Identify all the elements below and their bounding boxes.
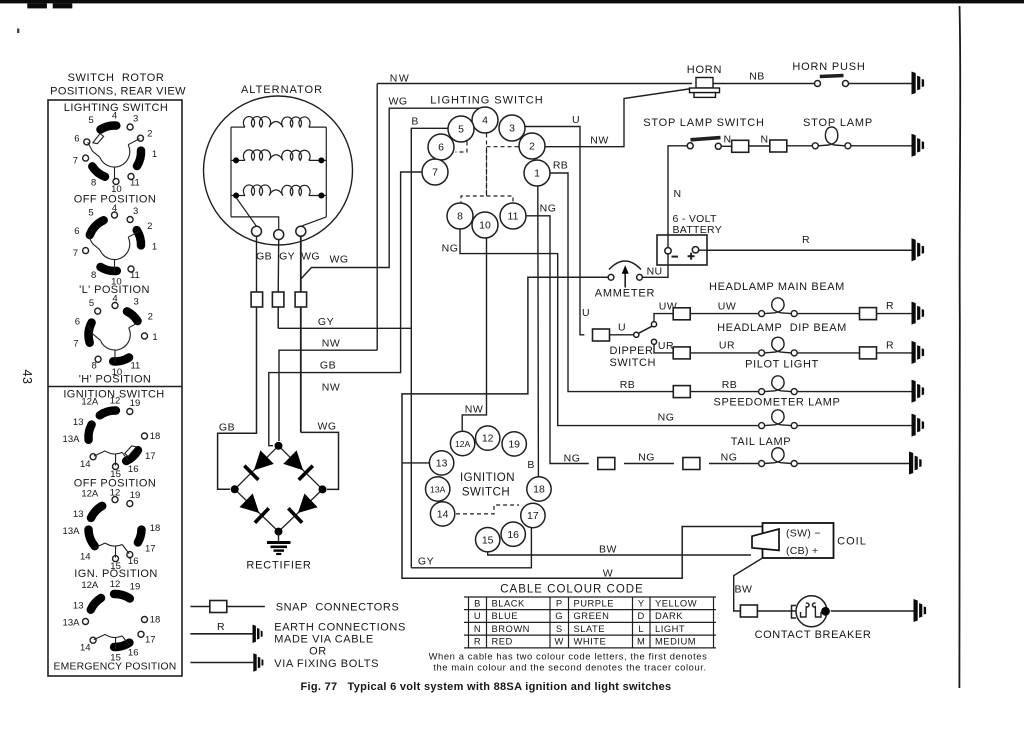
dipper switch contact UR: [651, 339, 656, 344]
svg-text:U: U: [572, 114, 580, 126]
wire stop lamp connector to lamp: [787, 145, 813, 147]
svg-text:5: 5: [88, 115, 93, 126]
headlamp main beam bulb: [759, 298, 798, 317]
svg-text:18: 18: [150, 523, 161, 534]
wire speedometer lamp to earth: [797, 425, 911, 427]
svg-text:14: 14: [80, 459, 91, 470]
svg-text:10: 10: [479, 220, 491, 232]
svg-text:16: 16: [128, 556, 139, 567]
svg-text:YELLOW: YELLOW: [655, 597, 697, 608]
svg-text:UR: UR: [719, 340, 735, 352]
snap connector contact breaker: [740, 605, 757, 617]
rectifier diode upper-left: [235, 446, 279, 490]
lighting switch terminal 4: [472, 107, 498, 133]
alternator terminal GB: [252, 226, 262, 236]
ignition switch terminal 13A: [426, 477, 450, 501]
wire stop lamp switch feed from battery: [668, 146, 687, 235]
svg-text:5: 5: [88, 208, 93, 219]
svg-text:LIGHTING SWITCH: LIGHTING SWITCH: [430, 95, 543, 107]
svg-text:18: 18: [150, 615, 161, 626]
svg-text:14: 14: [437, 509, 449, 521]
svg-text:GY: GY: [318, 316, 334, 328]
svg-text:N: N: [674, 188, 682, 200]
svg-text:SWITCH: SWITCH: [610, 357, 656, 369]
svg-text:U: U: [474, 610, 481, 621]
alternator body circle: [204, 96, 353, 245]
svg-text:8: 8: [91, 360, 96, 371]
svg-text:13A: 13A: [430, 485, 446, 495]
svg-text:13A: 13A: [63, 434, 81, 445]
headlamp dip beam bulb: [759, 337, 798, 356]
wire NW bus to rectifier top node: [279, 350, 377, 441]
rectifier diode lower-right: [279, 489, 323, 531]
svg-text:SWITCH: SWITCH: [462, 487, 510, 499]
dashed link rotor to terminal 11: [487, 196, 514, 203]
svg-text:16: 16: [507, 529, 519, 541]
ignition switch rotor, off position: [63, 395, 161, 480]
svg-text:GB: GB: [320, 360, 336, 372]
horn push contact left: [815, 81, 821, 87]
ignition switch terminal 13: [429, 451, 453, 475]
svg-text:STOP LAMP: STOP LAMP: [803, 117, 873, 129]
ignition switch terminal 19: [502, 432, 526, 456]
horn: [690, 78, 720, 98]
legend earth-by-cable wire: [190, 633, 252, 635]
wire R main beam to earth: [877, 313, 912, 315]
rectifier node bottom (junction): [275, 528, 283, 536]
svg-text:14: 14: [80, 643, 91, 654]
wire contact breaker to earth: [831, 610, 914, 612]
legend earth symbol (cable): [253, 625, 263, 643]
tail lamp bulb: [759, 448, 798, 467]
svg-text:NG: NG: [442, 243, 459, 255]
wire NU ammeter to battery terminal: [643, 254, 668, 277]
ignition switch terminal 16: [501, 522, 525, 546]
svg-text:ALTERNATOR: ALTERNATOR: [241, 84, 323, 96]
svg-text:13: 13: [436, 458, 448, 470]
wire stop lamp to earth: [851, 145, 912, 147]
svg-text:19: 19: [508, 439, 520, 451]
svg-text:13: 13: [73, 509, 84, 520]
alternator internal lead to GB terminal: [236, 198, 256, 227]
svg-text:6: 6: [75, 317, 80, 328]
horn push contact right: [843, 81, 849, 87]
wire GY alternator to connector: [277, 240, 280, 292]
svg-text:MEDIUM: MEDIUM: [655, 636, 696, 647]
wire U connector to dipper pivot: [610, 334, 634, 336]
svg-text:W: W: [555, 636, 564, 647]
svg-text:HORN PUSH: HORN PUSH: [792, 61, 865, 73]
earth (contact breaker): [914, 599, 927, 622]
svg-text:19: 19: [130, 581, 141, 592]
snap connector WG lead: [295, 292, 307, 307]
earth (stop lamp line): [912, 134, 925, 157]
svg-text:1: 1: [152, 332, 157, 343]
svg-text:NG: NG: [658, 412, 675, 424]
scan dash top-left 1: [27, 3, 47, 8]
svg-text:L: L: [638, 623, 644, 634]
svg-text:Fig. 77 Typical 6 volt syste: Fig. 77 Typical 6 volt system with 88SA …: [301, 681, 672, 693]
svg-text:4: 4: [112, 293, 117, 304]
wire NW horn line: [377, 83, 692, 85]
wire NG lighting switch 8 to speedometer lamp: [460, 230, 759, 426]
pilot light bulb: [759, 376, 798, 395]
lighting switch terminal 5: [448, 116, 474, 142]
wire B from lighting switch 5 down to ignition 13/17: [410, 328, 412, 568]
svg-text:B: B: [527, 459, 534, 471]
svg-text:2: 2: [529, 141, 535, 153]
svg-text:BROWN: BROWN: [492, 623, 530, 634]
svg-text:R: R: [474, 636, 481, 647]
svg-text:POSITIONS, REAR VIEW: POSITIONS, REAR VIEW: [50, 86, 186, 98]
svg-text:1: 1: [152, 149, 157, 160]
svg-text:NG: NG: [721, 452, 738, 464]
svg-text:OR: OR: [309, 646, 327, 658]
svg-text:NW: NW: [322, 338, 341, 350]
svg-text:WG: WG: [317, 421, 336, 433]
svg-text:6: 6: [74, 134, 79, 145]
svg-text:18: 18: [150, 431, 161, 442]
wire contact breaker feed: [757, 610, 795, 612]
legend earth symbol (bolts): [253, 653, 263, 671]
wire B lighting switch 1 to ignition 18: [537, 186, 540, 477]
svg-text:15: 15: [482, 534, 494, 546]
svg-text:CABLE COLOUR CODE: CABLE COLOUR CODE: [500, 584, 644, 596]
svg-text:4: 4: [482, 115, 488, 127]
wire BW coil to contact breaker: [734, 558, 763, 611]
svg-text:BW: BW: [735, 584, 753, 596]
svg-text:NW: NW: [390, 73, 411, 85]
snap connector UW: [673, 308, 690, 320]
ignition switch rotor, emergency position: [63, 579, 161, 664]
svg-text:NG: NG: [638, 452, 655, 464]
svg-text:1: 1: [152, 241, 157, 252]
svg-text:12: 12: [110, 579, 121, 590]
svg-text:B: B: [474, 597, 481, 608]
svg-text:N: N: [474, 623, 481, 634]
snap connector stop lamp 1: [732, 140, 749, 152]
svg-text:UW: UW: [718, 301, 737, 313]
ignition switch terminal 12A: [450, 431, 474, 455]
svg-text:BW: BW: [599, 544, 617, 556]
svg-text:DARK: DARK: [655, 610, 683, 621]
svg-text:12: 12: [110, 395, 121, 406]
svg-text:NB: NB: [749, 71, 765, 83]
svg-text:11: 11: [508, 211, 519, 223]
svg-text:P: P: [556, 597, 563, 608]
wire tail lamp to earth: [797, 463, 909, 465]
cable colour code table grid: [464, 597, 716, 648]
wire GY column to GY bus corner: [277, 307, 279, 328]
svg-text:STOP LAMP SWITCH: STOP LAMP SWITCH: [643, 117, 765, 129]
wire horn push to earth: [849, 83, 912, 85]
battery 6-volt: [657, 235, 707, 265]
alternator internal frame right: [325, 127, 327, 217]
wire RB lighting switch 1 to pilot light: [550, 173, 673, 392]
svg-text:SPEEDOMETER LAMP: SPEEDOMETER LAMP: [714, 397, 841, 409]
svg-text:16: 16: [128, 464, 139, 475]
lighting switch rotor, off position: [73, 110, 157, 194]
svg-text:WHITE: WHITE: [574, 636, 607, 647]
svg-text:RED: RED: [492, 636, 513, 647]
snap connector main beam earth side: [860, 308, 877, 320]
svg-text:12A: 12A: [81, 489, 99, 500]
lighting switch terminal 10: [472, 212, 498, 238]
legend earth-by-bolts wire: [190, 662, 253, 664]
dashed link ignition 14 to rotor: [456, 505, 519, 514]
lighting switch terminal 11: [500, 203, 526, 229]
dipper switch pivot: [634, 332, 639, 337]
svg-text:12: 12: [482, 433, 494, 445]
svg-text:BLACK: BLACK: [492, 597, 525, 608]
svg-text:RECTIFIER: RECTIFIER: [246, 560, 311, 572]
svg-text:3: 3: [509, 123, 515, 135]
wire UR connector to dip beam lamp: [690, 352, 758, 354]
svg-text:WG: WG: [388, 96, 407, 108]
svg-text:13A: 13A: [63, 617, 81, 628]
stop lamp switch blade: [691, 138, 721, 140]
panel divider between lighting and ignition sections: [48, 386, 182, 388]
lighting switch terminal 1: [524, 160, 550, 186]
legend snap connector wire left: [190, 606, 209, 608]
svg-text:SWITCH ROTOR: SWITCH ROTOR: [68, 72, 165, 84]
svg-text:7: 7: [432, 167, 438, 179]
svg-text:U: U: [618, 322, 626, 334]
svg-text:R: R: [886, 340, 894, 352]
svg-text:17: 17: [145, 635, 156, 646]
wire W ammeter to coil SW: [402, 277, 763, 578]
svg-text:19: 19: [130, 398, 141, 409]
earth (pilot light): [912, 380, 925, 403]
svg-text:12A: 12A: [81, 580, 99, 591]
earth (tail lamp): [909, 452, 922, 475]
svg-text:SLATE: SLATE: [574, 623, 606, 634]
wire WG column down: [300, 307, 302, 432]
wire UW connector to main beam lamp: [690, 313, 758, 315]
snap connector tail lamp 2: [683, 458, 700, 470]
lighting switch terminal 7: [422, 159, 448, 185]
wire GB column to rectifier left node: [218, 307, 257, 489]
snap connector RB pilot: [673, 386, 690, 398]
snap connector stop lamp 2: [770, 140, 787, 152]
svg-text:4: 4: [112, 203, 117, 214]
alternator terminal GY: [274, 230, 284, 240]
svg-text:IGNITION: IGNITION: [460, 472, 515, 484]
svg-text:GY: GY: [418, 556, 434, 568]
svg-text:Y: Y: [638, 597, 645, 608]
svg-text:R: R: [886, 300, 894, 312]
rectifier diode lower-left: [235, 489, 279, 531]
svg-text:EARTH CONNECTIONS: EARTH CONNECTIONS: [274, 622, 406, 634]
wire BW ignition 15 to coil CB plug: [488, 552, 751, 555]
svg-text:3: 3: [134, 297, 139, 308]
ignition switch rotor, ignition position: [63, 488, 161, 573]
snap connector GY lead: [272, 292, 284, 307]
alternator stator winding row 1: [231, 117, 326, 128]
wire W to ignition 13 stub: [402, 462, 430, 464]
svg-text:NW: NW: [590, 135, 609, 147]
svg-text:13: 13: [73, 417, 84, 428]
wire NG tail lamp final segment: [709, 463, 759, 465]
svg-text:7: 7: [73, 248, 78, 259]
svg-text:7: 7: [73, 339, 78, 350]
lighting switch rotor, L position: [73, 203, 157, 287]
svg-text:CONTACT BREAKER: CONTACT BREAKER: [755, 629, 872, 641]
svg-text:LIGHT: LIGHT: [655, 623, 685, 634]
svg-text:G: G: [555, 610, 563, 621]
wire WG alternator to connector: [300, 236, 302, 292]
earth (dip beam): [912, 341, 925, 364]
lighting switch rotor, H position: [73, 293, 157, 377]
earth (horn line): [912, 72, 925, 95]
snap connector dip beam earth side: [860, 347, 877, 359]
cable colour code table text: [474, 597, 697, 646]
rectifier node top (junction): [275, 442, 283, 450]
alternator terminal WG: [296, 226, 306, 236]
svg-text:GY: GY: [279, 251, 295, 263]
svg-text:8: 8: [91, 270, 96, 281]
svg-text:12A: 12A: [81, 396, 99, 407]
legend snap connector wire right: [227, 606, 265, 608]
svg-text:D: D: [638, 610, 645, 621]
svg-text:R: R: [802, 234, 810, 246]
alternator internal frame left: [230, 127, 232, 217]
svg-text:14: 14: [80, 551, 91, 562]
ground (rectifier earth): [267, 543, 291, 555]
snap connector GB lead: [251, 292, 263, 307]
svg-text:BATTERY: BATTERY: [673, 224, 723, 236]
right page-edge line: [959, 6, 960, 688]
wire NG lighting switch 11 to tail lamp: [526, 216, 589, 464]
wire N stop lamp switch to connector: [721, 145, 731, 147]
svg-text:WG: WG: [301, 251, 320, 263]
dashed link terminal 2 to rotor centre: [461, 147, 519, 203]
svg-text:12: 12: [110, 488, 121, 499]
wire GB bus lighting switch 7 to rectifier top node: [269, 172, 422, 446]
svg-text:11: 11: [130, 361, 140, 372]
svg-text:5: 5: [458, 124, 464, 136]
svg-text:3: 3: [133, 114, 138, 125]
ignition switch terminal 14: [430, 502, 454, 526]
svg-text:GREEN: GREEN: [574, 610, 610, 621]
svg-text:GB: GB: [256, 251, 272, 263]
svg-text:U: U: [582, 307, 590, 319]
wire dip beam lamp to connector: [797, 352, 859, 354]
svg-text:13: 13: [73, 600, 84, 611]
svg-text:2: 2: [147, 221, 152, 232]
wire UW dipper to connector: [654, 314, 673, 322]
svg-text:18: 18: [533, 484, 545, 496]
wire N between stop lamp connectors: [749, 145, 770, 147]
svg-text:the main colour and the second: the main colour and the second denotes t…: [433, 662, 706, 673]
wire B label run lighting switch 5: [411, 128, 448, 328]
legend snap connector symbol: [210, 601, 227, 613]
svg-text:HEADLAMP DIP BEAM: HEADLAMP DIP BEAM: [717, 322, 847, 334]
wire GB alternator to connector: [256, 236, 258, 292]
svg-text:(CB) +: (CB) +: [786, 545, 818, 557]
wire NW lighting switch 10 to ignition 12A: [462, 238, 486, 431]
ignition coil: [752, 523, 834, 558]
svg-text:13A: 13A: [63, 526, 81, 537]
wire NG tail lamp mid segment: [624, 463, 674, 465]
svg-text:6: 6: [438, 142, 444, 154]
lighting switch terminal 6: [428, 134, 454, 160]
svg-text:43: 43: [20, 370, 34, 385]
svg-text:HEADLAMP MAIN BEAM: HEADLAMP MAIN BEAM: [709, 281, 845, 293]
alternator stator winding row 2: [231, 150, 326, 161]
wire U lighting switch 3 to dipper switch: [525, 127, 584, 335]
svg-text:GB: GB: [219, 422, 235, 434]
snap connector U dipper: [593, 329, 610, 341]
svg-text:11: 11: [130, 178, 140, 189]
svg-text:7: 7: [73, 156, 78, 167]
switch rotor panel box: [48, 100, 182, 676]
svg-text:17: 17: [145, 543, 156, 554]
ignition switch terminal 12: [476, 426, 500, 450]
svg-text:W: W: [603, 568, 613, 580]
dashed rotor centre vertical from terminal 4: [486, 134, 488, 197]
svg-text:'H' POSITION: 'H' POSITION: [79, 374, 152, 386]
wire main beam lamp to connector: [797, 313, 859, 315]
horn push blade: [820, 76, 844, 77]
svg-text:2: 2: [148, 312, 153, 323]
svg-text:VIA FIXING BOLTS: VIA FIXING BOLTS: [274, 658, 379, 670]
wire NW lighting switch 2 to horn: [545, 89, 692, 147]
svg-text:PURPLE: PURPLE: [574, 597, 615, 608]
ignition switch terminal 15: [476, 528, 500, 552]
ignition switch terminal 17: [521, 503, 545, 527]
speedometer lamp bulb: [759, 410, 798, 429]
svg-text:6: 6: [74, 226, 79, 237]
svg-text:8: 8: [91, 177, 96, 188]
svg-text:AMMETER: AMMETER: [595, 288, 656, 300]
dipper switch arm: [639, 326, 652, 333]
dashed link terminals 5-6: [456, 142, 468, 153]
svg-text:MADE VIA CABLE: MADE VIA CABLE: [274, 634, 374, 646]
svg-text:When a cable has two colour co: When a cable has two colour code letters…: [429, 651, 708, 662]
snap connector UR: [673, 347, 690, 359]
top scan bar: [0, 0, 1024, 3]
svg-text:(SW) −: (SW) −: [786, 528, 821, 540]
svg-text:NW: NW: [322, 382, 341, 394]
svg-text:N: N: [724, 134, 732, 146]
dipper switch contact UW: [651, 322, 656, 327]
wire NW vertical to horn line: [376, 84, 378, 351]
wire GY to ignition terminal 17: [411, 528, 531, 568]
svg-text:S: S: [556, 623, 563, 634]
svg-text:11: 11: [130, 270, 140, 281]
svg-text:2: 2: [147, 129, 152, 140]
wire rectifier bottom node to earth: [278, 532, 280, 541]
wire GY bus to lighting switch 5 (B): [278, 327, 411, 329]
svg-text:4: 4: [112, 110, 117, 121]
rectifier node right (junction): [319, 485, 327, 493]
svg-text:5: 5: [89, 298, 94, 309]
svg-text:SNAP CONNECTORS: SNAP CONNECTORS: [276, 602, 400, 614]
wire RB pilot light feed after connector: [690, 391, 758, 393]
stop lamp bulb: [812, 127, 851, 149]
wire WG into rectifier right node: [301, 432, 339, 489]
svg-text:PILOT LIGHT: PILOT LIGHT: [745, 359, 819, 371]
svg-text:R: R: [217, 621, 225, 633]
svg-text:NU: NU: [647, 266, 663, 278]
svg-text:NG: NG: [564, 453, 581, 465]
snap connector tail lamp 1: [598, 458, 615, 470]
stop lamp switch contact right: [715, 143, 721, 149]
svg-text:8: 8: [457, 211, 463, 223]
stop lamp switch contact left: [687, 143, 693, 149]
alternator internal lead to WG terminal: [301, 217, 327, 226]
